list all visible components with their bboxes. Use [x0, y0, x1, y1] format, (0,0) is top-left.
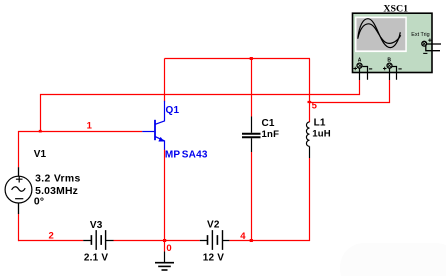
faint background blob bottom right	[340, 243, 446, 276]
svg-text:12 V: 12 V	[203, 252, 225, 263]
wire L1 bottom to node4	[309, 158, 311, 241]
svg-text:XSC1: XSC1	[383, 4, 408, 15]
wire L1 top	[309, 59, 311, 123]
junction node3 at C1 top	[250, 57, 253, 60]
svg-text:4: 4	[240, 231, 246, 242]
inductor L1	[306, 122, 309, 158]
junction node0 ground	[163, 239, 166, 242]
svg-text:0: 0	[166, 243, 171, 254]
junction node1 scope A tap	[39, 130, 42, 133]
svg-text:5: 5	[312, 100, 318, 111]
wire node2 V1 to V3	[18, 240, 83, 242]
wire V1 plus to node1	[18, 131, 20, 167]
svg-text:V3: V3	[90, 220, 103, 231]
AC source V1	[5, 167, 32, 214]
capacitor C1	[242, 117, 261, 153]
oscilloscope channel B terminal	[383, 63, 402, 80]
battery V2	[200, 230, 230, 250]
wire node4 V2 to L1	[229, 240, 310, 242]
svg-text:V1: V1	[34, 149, 47, 160]
svg-text:3.2 Vrms: 3.2 Vrms	[35, 173, 81, 184]
wire node0 V3 to V2	[113, 240, 199, 242]
svg-text:MPSA43: MPSA43	[165, 149, 208, 160]
ground node0	[155, 252, 174, 271]
junction node5 scope B tap	[308, 101, 312, 103]
oscilloscope waveform A	[358, 19, 400, 48]
svg-text:Q1: Q1	[166, 105, 180, 116]
oscilloscope screen	[355, 17, 407, 53]
oscilloscope waveform B	[358, 24, 401, 44]
wire node3 top bus	[165, 58, 311, 60]
transistor Q1	[142, 101, 164, 150]
wire V1 minus to node2	[18, 214, 20, 241]
junction node4	[250, 239, 253, 242]
wire node5 to scope B	[310, 80, 390, 103]
svg-text:1uH: 1uH	[312, 129, 331, 140]
svg-text:2.1 V: 2.1 V	[84, 252, 108, 263]
wire node0 to ground stub	[164, 241, 166, 252]
svg-text:0°: 0°	[34, 197, 44, 208]
svg-text:1nF: 1nF	[262, 129, 280, 140]
wire Q1 collector to node3	[164, 59, 166, 102]
wire C1 bottom to node4	[251, 152, 253, 241]
oscilloscope channel A terminal	[354, 63, 373, 80]
svg-text:2: 2	[49, 231, 54, 242]
svg-text:C1: C1	[262, 118, 275, 129]
wire C1 top	[251, 59, 253, 117]
svg-text:L1: L1	[314, 118, 326, 129]
svg-text:5.03MHz: 5.03MHz	[35, 186, 78, 197]
svg-text:Ext Trig: Ext Trig	[411, 32, 429, 38]
svg-text:V2: V2	[207, 220, 220, 231]
wire node1 to scope A	[41, 80, 360, 132]
oscilloscope Ext Trig terminal	[422, 39, 441, 54]
wire Q1 emitter to node0	[164, 150, 166, 242]
battery V3	[83, 230, 113, 250]
wire node1 base	[18, 131, 142, 133]
oscilloscope XSC1 body	[353, 13, 433, 72]
svg-text:1: 1	[87, 120, 93, 131]
